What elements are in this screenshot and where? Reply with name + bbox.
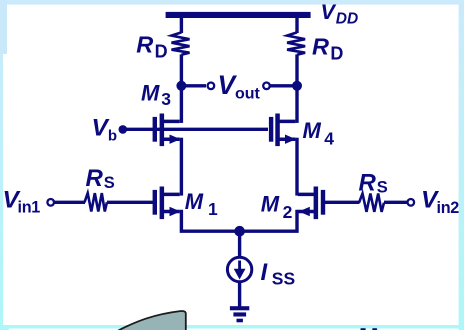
ground [230, 306, 249, 322]
svg-text:M: M [141, 81, 160, 106]
wire M2 gate to RS right [325, 201, 360, 204]
svg-text:in1: in1 [18, 199, 41, 217]
wire Vb bus to gates of M3 and M4 [123, 128, 268, 131]
terminal Vout left circle [208, 83, 215, 90]
svg-text:D: D [330, 44, 343, 64]
svg-text:S: S [377, 178, 388, 196]
terminal Vout right circle [263, 83, 270, 90]
frame right border [459, 0, 464, 330]
frame left border [0, 0, 9, 330]
transistor M4 [269, 114, 296, 147]
wire RD left to Vout node [180, 54, 183, 86]
wire M1 source to tail node [181, 210, 239, 232]
terminal Vin1 circle [47, 199, 54, 206]
wire RS left to M1 gate [107, 201, 153, 204]
wire ISS to ground [238, 281, 241, 307]
wire VDD to RD right [295, 17, 298, 33]
VDD rail [166, 12, 311, 18]
wire VDD to RD left [180, 17, 183, 33]
wire Vout node to M4 drain [295, 86, 298, 123]
svg-text:in2: in2 [437, 199, 460, 217]
node Vout left dot [176, 81, 186, 91]
svg-text:R: R [312, 34, 329, 60]
svg-text:R: R [359, 169, 377, 196]
partial figure shape (gray quarter pie, next slide element) [116, 311, 186, 330]
svg-text:SS: SS [272, 268, 295, 288]
resistor RD (right) [287, 32, 305, 54]
resistor RS (left) [85, 193, 107, 211]
svg-text:M: M [185, 189, 204, 214]
transistor M1 [153, 187, 181, 220]
wire M3 source to M1 drain [180, 138, 183, 196]
resistor RD (left) [172, 32, 190, 54]
wire tail node to ISS [238, 231, 241, 258]
wire M4 source to M2 drain [295, 138, 298, 196]
wire RS right to Vin2 terminal [384, 201, 408, 204]
svg-text:R: R [86, 165, 104, 192]
svg-text:3: 3 [161, 89, 171, 109]
terminal Vin2 circle [408, 199, 415, 206]
wire Vout node to M3 drain [180, 86, 183, 123]
wire Vout right stub [271, 84, 298, 87]
transistor M3 [153, 114, 181, 147]
svg-text:4: 4 [324, 129, 334, 149]
svg-text:out: out [235, 86, 261, 103]
current source ISS [227, 257, 251, 281]
node Vb dot [119, 125, 128, 134]
svg-text:1: 1 [208, 199, 218, 219]
svg-text:b: b [108, 128, 117, 145]
wire RD right to Vout node [295, 54, 298, 86]
svg-text:2: 2 [283, 202, 293, 222]
svg-text:V: V [321, 0, 337, 24]
svg-text:DD: DD [336, 10, 358, 27]
svg-text:M: M [261, 191, 280, 216]
partial text glyph tops (below bottom border) [360, 328, 377, 330]
svg-text:S: S [104, 174, 115, 192]
node tail dot [234, 226, 245, 237]
wire M2 source to tail node [240, 210, 297, 232]
transistor M2 [298, 187, 325, 220]
frame bottom border [0, 325, 464, 330]
svg-text:R: R [136, 31, 153, 57]
node Vout right dot [292, 81, 302, 91]
svg-text:M: M [303, 118, 322, 143]
wire Vin1 terminal to RS left [54, 201, 85, 204]
resistor RS (right) [359, 194, 384, 212]
svg-text:D: D [155, 42, 168, 62]
frame top border [0, 0, 464, 5]
wire Vout left stub [181, 84, 206, 87]
